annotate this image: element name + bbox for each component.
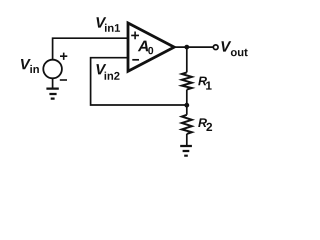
op-amp - input marker (132, 59, 139, 61)
terminal Vout (open circle) (213, 45, 218, 50)
- polarity of source (60, 79, 67, 81)
wire R1 to node (186, 90, 188, 115)
node: output junction dot (184, 45, 189, 50)
ground under source (46, 89, 58, 99)
label Vin2 (96, 64, 106, 74)
label Vin (21, 59, 31, 69)
label R1 (198, 77, 207, 86)
ground under R2 (180, 146, 192, 156)
resistor R1 (182, 72, 192, 89)
voltage source VS1 (43, 60, 62, 79)
op-amp A0 (128, 23, 174, 71)
resistor R2 (182, 115, 192, 134)
label A0 (138, 41, 148, 52)
label Vout (221, 41, 231, 51)
wire output node down to R1 (186, 47, 188, 72)
wire source bottom to ground (52, 78, 54, 88)
+ polarity of source (60, 53, 67, 60)
op-amp + input marker (131, 32, 139, 40)
wire op-amp output to Vout terminal (174, 46, 213, 48)
node: feedback junction dot between R1 and R2 (184, 103, 189, 108)
label R2 (198, 118, 207, 127)
wire from source top to op-amp noninverting input (53, 38, 128, 60)
wire R2 to ground (186, 134, 188, 145)
label Vin1 (96, 17, 106, 27)
wire feedback: inverting input left and down to R1/R2 node (91, 58, 187, 105)
